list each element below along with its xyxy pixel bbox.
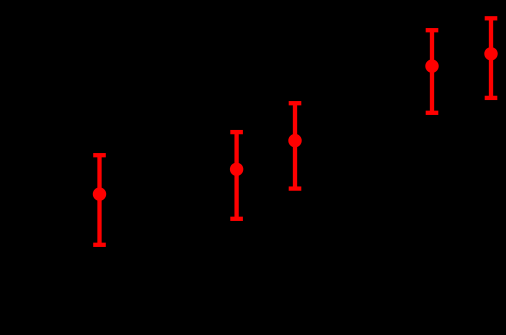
data point 1 marker	[93, 187, 106, 200]
data point 2 marker	[230, 163, 243, 176]
data point 3 marker	[288, 134, 301, 147]
data point 3 error bar	[289, 103, 302, 188]
data point 1 error bar	[93, 155, 106, 245]
data point 4 error bar	[426, 30, 439, 113]
data point 5 marker	[484, 47, 497, 60]
data point 4 marker	[425, 59, 438, 72]
data point 2 error bar	[230, 132, 243, 219]
data point 5 error bar	[485, 18, 498, 98]
